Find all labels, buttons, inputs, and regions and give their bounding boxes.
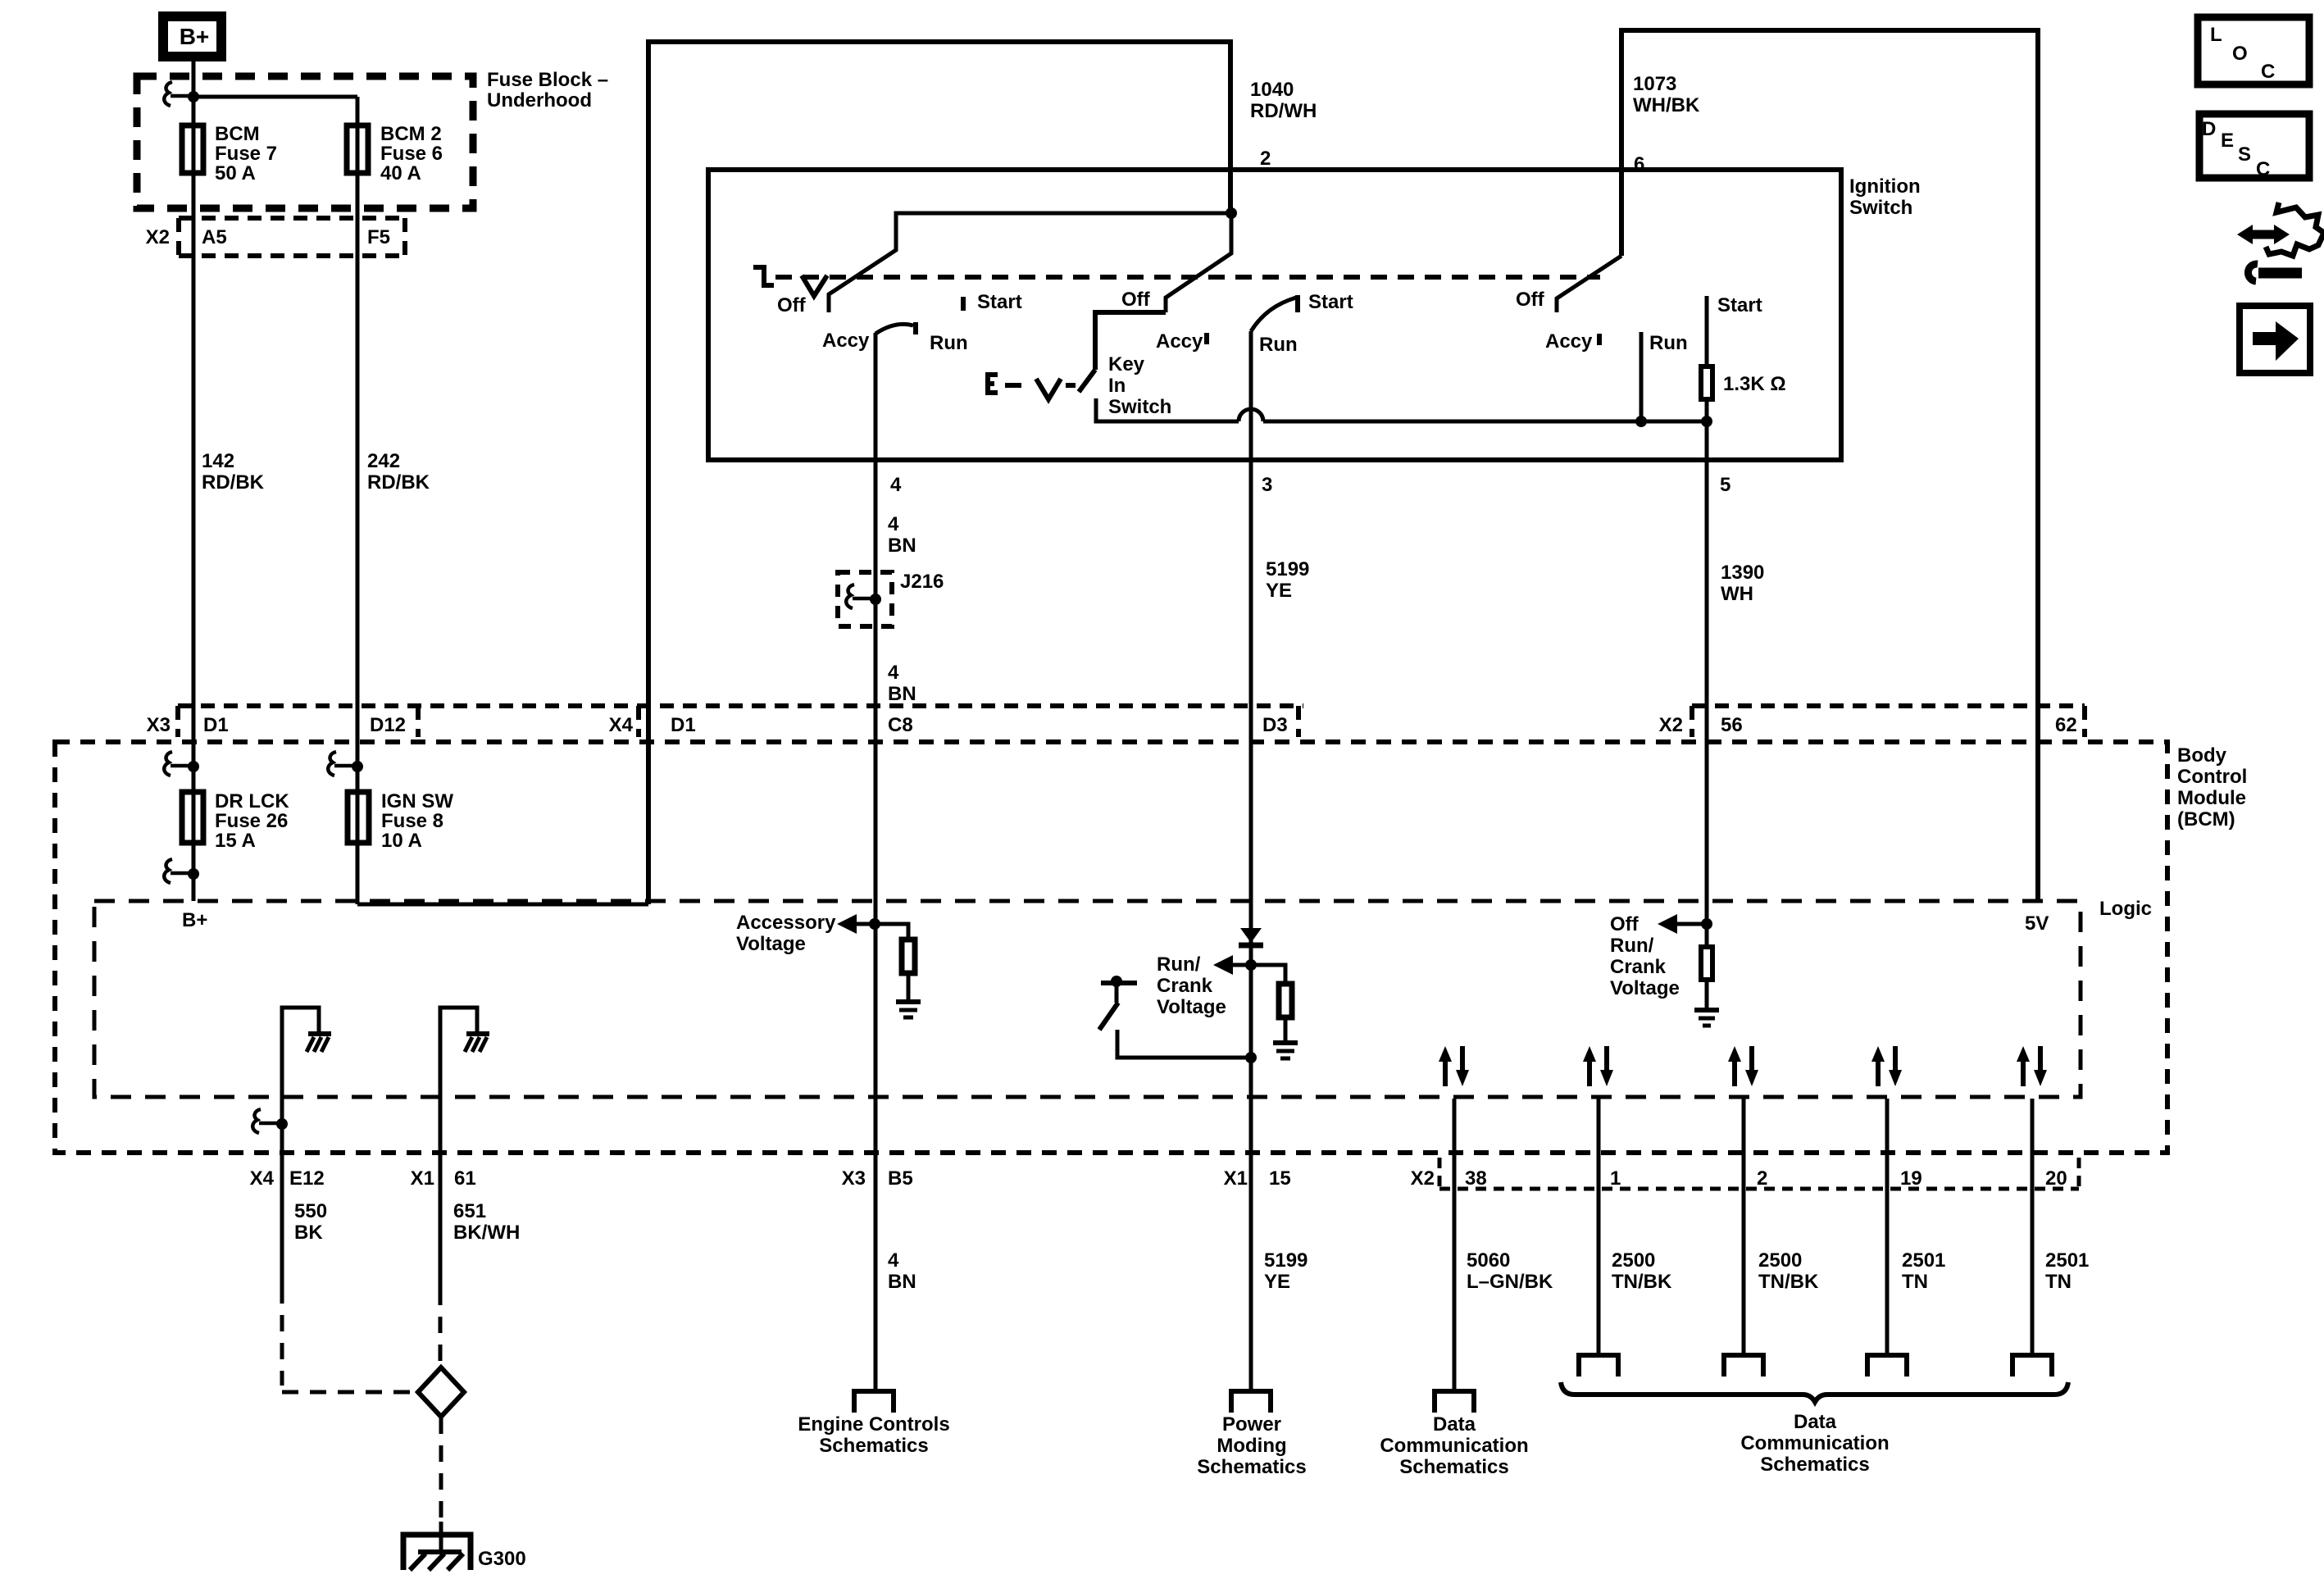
ground G300 <box>439 1522 443 1552</box>
wire 38 <box>1453 1099 1457 1391</box>
dashed wire E12 to splice <box>280 1287 284 1386</box>
svg-text:20: 20 <box>2045 1167 2067 1190</box>
connector row X3 D1 D12 X4 D1 C8 D3 dotted <box>178 706 2085 737</box>
ground branch E12 <box>282 1008 319 1287</box>
clip at B+ feed <box>164 82 172 106</box>
wire B+ to fuse 7 and down to BCM <box>192 61 196 901</box>
node junction at B+ feed <box>188 91 199 102</box>
svg-text:Off: Off <box>1121 289 1151 311</box>
svg-text:Run: Run <box>930 332 968 354</box>
svg-text:651: 651 <box>453 1200 486 1222</box>
svg-text:Key: Key <box>1108 353 1145 375</box>
svg-text:4: 4 <box>888 513 899 535</box>
svg-text:Data: Data <box>1794 1411 1837 1433</box>
svg-text:WH: WH <box>1721 583 1753 605</box>
svg-text:4: 4 <box>890 474 902 496</box>
clip at D1 pin <box>188 761 199 772</box>
wire label 142 RD/BK <box>202 450 430 494</box>
svg-text:Moding: Moding <box>1217 1435 1286 1457</box>
svg-text:2501: 2501 <box>1902 1249 1945 1272</box>
ground run/crank <box>1273 1040 1298 1045</box>
svg-text:D12: D12 <box>370 714 406 736</box>
icon LOC box <box>2198 17 2309 84</box>
svg-text:Run: Run <box>1649 332 1688 354</box>
svg-text:A5: A5 <box>202 226 227 248</box>
svg-text:RD/BK: RD/BK <box>202 471 265 494</box>
label Fuse Block Underhood <box>487 69 608 111</box>
svg-text:X1: X1 <box>411 1167 434 1190</box>
wire resistor to junction <box>1705 402 1709 421</box>
svg-text:G300: G300 <box>478 1548 526 1570</box>
svg-text:10 A: 10 A <box>381 830 422 852</box>
svg-text:2501: 2501 <box>2045 1249 2089 1272</box>
wire 1073 WH/BK top run <box>1621 30 2038 901</box>
connector bracket 38 <box>1435 1391 1474 1413</box>
svg-text:IGN SW: IGN SW <box>381 790 453 812</box>
svg-text:DR LCK: DR LCK <box>215 790 289 812</box>
E terminal key-in <box>988 375 998 393</box>
svg-text:Voltage: Voltage <box>736 933 806 955</box>
svg-text:TN/BK: TN/BK <box>1758 1271 1819 1293</box>
wire fuse 6 drop <box>356 97 360 904</box>
svg-text:BN: BN <box>888 535 916 557</box>
accessory voltage arrow <box>736 912 836 955</box>
wire resistor to ground <box>1284 1020 1288 1043</box>
svg-text:X2: X2 <box>146 226 170 248</box>
internal run/crank switch <box>1101 981 1137 985</box>
connector bracket 20 <box>2012 1355 2052 1377</box>
svg-text:Accy: Accy <box>822 330 870 352</box>
svg-text:62: 62 <box>2055 714 2077 736</box>
svg-text:15 A: 15 A <box>215 830 256 852</box>
data link arrows 20 <box>2017 1046 2047 1086</box>
svg-text:X1: X1 <box>1224 1167 1248 1190</box>
data link arrows 38 <box>1439 1046 1469 1086</box>
svg-text:Fuse 26: Fuse 26 <box>215 810 288 832</box>
svg-text:19: 19 <box>1900 1167 1922 1190</box>
svg-text:Voltage: Voltage <box>1610 977 1680 999</box>
wire 4 from Accy contact down <box>874 333 878 1391</box>
svg-text:TN: TN <box>2045 1271 2072 1293</box>
svg-text:Run: Run <box>1259 334 1298 356</box>
start contact curve sw B <box>1251 298 1296 331</box>
contact tick Start A <box>961 297 966 311</box>
bottom wire labels <box>294 1200 2089 1293</box>
wire big loop fuse8 to ignition pin 2 <box>648 42 1230 904</box>
svg-text:Off: Off <box>1610 913 1640 935</box>
svg-text:61: 61 <box>454 1167 476 1190</box>
svg-text:Crank: Crank <box>1610 956 1667 978</box>
ground off/run/crank <box>1694 1008 1719 1012</box>
svg-text:In: In <box>1108 375 1126 397</box>
svg-text:BK/WH: BK/WH <box>453 1222 520 1244</box>
resistor run/crank pull-down <box>1279 984 1292 1017</box>
node start junction <box>1701 416 1712 427</box>
key-in switch blade <box>1079 370 1095 392</box>
svg-text:1.3K Ω: 1.3K Ω <box>1723 373 1786 395</box>
svg-text:B+: B+ <box>180 24 210 49</box>
svg-text:Module: Module <box>2177 787 2246 809</box>
switch blade C from pin 6 <box>1557 256 1621 312</box>
svg-text:YE: YE <box>1266 580 1292 602</box>
data link arrows 1 <box>1583 1046 1613 1086</box>
svg-text:Schematics: Schematics <box>1197 1456 1306 1478</box>
wire 1 <box>1597 1099 1601 1355</box>
svg-text:(BCM): (BCM) <box>2177 808 2235 830</box>
svg-text:Fuse 7: Fuse 7 <box>215 143 277 165</box>
resistor accessory pull-down <box>902 940 915 973</box>
svg-text:5V: 5V <box>2025 912 2049 935</box>
chassis ground 61 <box>466 1031 489 1036</box>
connector bracket 1 <box>1579 1355 1618 1377</box>
connector bracket 2 <box>1724 1355 1763 1377</box>
svg-text:Off: Off <box>777 294 807 316</box>
svg-text:BN: BN <box>888 1271 916 1293</box>
svg-text:L: L <box>2210 24 2222 46</box>
svg-text:S: S <box>2238 143 2251 166</box>
svg-text:F5: F5 <box>367 226 390 248</box>
fuse BCM Fuse 7 50A <box>182 125 203 173</box>
svg-text:Communication: Communication <box>1380 1435 1528 1457</box>
wire hop over wire 3 <box>1239 409 1263 421</box>
svg-text:142: 142 <box>202 450 234 472</box>
node run/crank junction <box>1245 959 1257 971</box>
svg-text:Logic: Logic <box>2099 898 2152 920</box>
svg-text:BCM: BCM <box>215 123 260 145</box>
svg-text:2: 2 <box>1757 1167 1767 1190</box>
svg-text:50 A: 50 A <box>215 162 256 184</box>
svg-text:Control: Control <box>2177 766 2247 788</box>
logic dashed box <box>94 901 2081 1097</box>
svg-text:Fuse Block –: Fuse Block – <box>487 69 608 91</box>
svg-text:Switch: Switch <box>1849 197 1912 219</box>
svg-text:Voltage: Voltage <box>1157 996 1226 1018</box>
svg-text:E12: E12 <box>289 1167 325 1190</box>
svg-text:B5: B5 <box>888 1167 913 1190</box>
svg-text:RD/BK: RD/BK <box>367 471 430 494</box>
svg-text:1: 1 <box>1610 1167 1621 1190</box>
svg-text:Run/: Run/ <box>1157 953 1201 976</box>
fuse BCM 2 Fuse 6 40A <box>347 125 368 173</box>
switch blade A to pin2 wire <box>829 213 1231 312</box>
connector bracket B5 <box>854 1391 894 1413</box>
svg-text:D: D <box>2202 118 2216 140</box>
svg-text:Accy: Accy <box>1156 330 1203 353</box>
wire jumper to fuse 6 <box>193 95 357 99</box>
svg-text:2500: 2500 <box>1612 1249 1655 1272</box>
svg-text:40 A: 40 A <box>380 162 421 184</box>
svg-text:5060: 5060 <box>1467 1249 1510 1272</box>
off/run/crank voltage arrow <box>1610 913 1680 999</box>
svg-text:Schematics: Schematics <box>1760 1454 1869 1476</box>
dashed wire diamond to G300 <box>439 1417 443 1522</box>
svg-text:X4: X4 <box>609 714 634 736</box>
svg-text:Accy: Accy <box>1545 330 1593 353</box>
wire Start contact sw C <box>1705 296 1709 364</box>
svg-text:Underhood: Underhood <box>487 89 592 111</box>
svg-text:BN: BN <box>888 683 916 705</box>
contact V sw A <box>802 275 827 296</box>
svg-text:Engine Controls: Engine Controls <box>798 1413 949 1436</box>
svg-text:C: C <box>2256 158 2270 180</box>
node accessory junction <box>869 918 880 930</box>
svg-text:TN/BK: TN/BK <box>1612 1271 1672 1293</box>
svg-text:2: 2 <box>1260 148 1271 170</box>
dashed wire 61 to splice <box>439 1289 443 1361</box>
svg-text:BK: BK <box>294 1222 323 1244</box>
clip J216 <box>846 585 854 608</box>
svg-text:Start: Start <box>977 291 1022 313</box>
svg-text:Power: Power <box>1222 1413 1281 1436</box>
svg-text:Communication: Communication <box>1740 1432 1889 1454</box>
terminal hook sw A <box>753 267 774 285</box>
chassis ground E12 <box>308 1031 331 1036</box>
wire 3 5199 down from Run contact <box>1249 331 1253 1391</box>
icon arrow box <box>2240 306 2310 373</box>
svg-text:BCM 2: BCM 2 <box>380 123 442 145</box>
connector row X2 A5 F5 dotted box <box>179 218 405 256</box>
svg-text:X2: X2 <box>1659 714 1683 736</box>
svg-text:4: 4 <box>888 662 899 684</box>
wire 5 1390 down <box>1705 421 1709 944</box>
brace data communication <box>1561 1382 2068 1402</box>
svg-text:Switch: Switch <box>1108 396 1171 418</box>
icon wrench <box>2248 264 2258 281</box>
svg-text:Fuse 6: Fuse 6 <box>380 143 443 165</box>
node switch to wire3 <box>1245 1052 1257 1063</box>
svg-text:L–GN/BK: L–GN/BK <box>1467 1271 1553 1293</box>
switch blade B to pin2 <box>1166 213 1231 312</box>
node pin2 junction <box>1226 207 1237 219</box>
svg-text:RD/WH: RD/WH <box>1250 100 1317 122</box>
key-in lower contact and wire <box>1096 398 1239 421</box>
svg-text:X2: X2 <box>1411 1167 1435 1190</box>
svg-text:2500: 2500 <box>1758 1249 1802 1272</box>
svg-text:Data: Data <box>1433 1413 1476 1436</box>
connector bracket 19 <box>1867 1355 1907 1377</box>
svg-text:Body: Body <box>2177 744 2227 767</box>
B+ power symbol <box>163 16 221 57</box>
svg-text:4: 4 <box>888 1249 899 1272</box>
svg-text:56: 56 <box>1721 714 1743 736</box>
svg-text:Schematics: Schematics <box>1399 1456 1508 1478</box>
svg-text:X3: X3 <box>842 1167 866 1190</box>
svg-text:5: 5 <box>1720 474 1730 496</box>
svg-text:38: 38 <box>1465 1167 1487 1190</box>
svg-text:E: E <box>2221 130 2234 152</box>
svg-text:15: 15 <box>1269 1167 1291 1190</box>
resistor off/run/crank <box>1701 947 1712 980</box>
wire 2 <box>1742 1099 1746 1355</box>
svg-text:Accessory: Accessory <box>736 912 836 934</box>
fuse block underhood dashed box <box>137 76 473 208</box>
svg-text:D3: D3 <box>1262 714 1288 736</box>
ground accessory <box>896 999 921 1004</box>
icon harness routing <box>2266 202 2324 256</box>
clip at E12 pin <box>276 1118 288 1130</box>
svg-text:TN: TN <box>1902 1271 1928 1293</box>
svg-text:D1: D1 <box>203 714 229 736</box>
contact arc Accy-Run A <box>875 324 913 334</box>
svg-text:B+: B+ <box>182 909 207 931</box>
connector bracket 15 <box>1231 1391 1271 1413</box>
icon DESC box <box>2199 114 2309 178</box>
data link arrows 2 <box>1728 1046 1758 1086</box>
svg-text:J216: J216 <box>900 571 944 593</box>
wire resistor to ground <box>1705 982 1709 1010</box>
svg-text:Ignition: Ignition <box>1849 175 1921 198</box>
svg-text:YE: YE <box>1264 1271 1290 1293</box>
wire Run contact sw C <box>1640 332 1644 421</box>
svg-text:Off: Off <box>1516 289 1545 311</box>
connector row bottom dotted <box>1439 1158 2079 1189</box>
BCM dashed box <box>55 742 2167 1153</box>
ignition switch box <box>708 170 1841 460</box>
svg-text:5199: 5199 <box>1266 558 1309 580</box>
svg-text:Start: Start <box>1308 291 1353 313</box>
diode on wire 3 <box>1240 928 1262 943</box>
wire to resistor junction <box>1263 420 1707 424</box>
svg-text:C: C <box>2261 61 2275 83</box>
svg-text:1040: 1040 <box>1250 79 1294 101</box>
splice J216 dashed box <box>838 572 892 626</box>
wire 19 <box>1885 1099 1890 1355</box>
svg-text:1390: 1390 <box>1721 562 1764 584</box>
key-in linkage dashed line <box>1005 383 1021 388</box>
node J216 <box>870 594 881 605</box>
wire to accessory resistor <box>875 924 908 937</box>
wire resistor to ground <box>907 976 911 1002</box>
fuse DR LCK Fuse 26 15A <box>182 792 203 843</box>
fuse IGN SW Fuse 8 10A <box>348 792 369 843</box>
ground branch 61 <box>440 1008 477 1289</box>
run/crank voltage arrow <box>1157 953 1226 1018</box>
destination labels <box>798 1411 1889 1478</box>
wire to run/crank resistor <box>1251 965 1285 981</box>
mechanical linkage dashed line <box>775 275 1600 280</box>
wire fuse8 bottom jog <box>357 903 648 907</box>
clip at D12 pin <box>352 761 363 772</box>
data link arrows 19 <box>1871 1046 1902 1086</box>
node off/run/crank junction <box>1701 918 1712 930</box>
step link sw B <box>1095 312 1166 370</box>
svg-text:D1: D1 <box>671 714 696 736</box>
svg-text:O: O <box>2232 43 2248 65</box>
clip below DR LCK fuse <box>188 868 199 880</box>
svg-text:3: 3 <box>1262 474 1272 496</box>
resistor 1.3K <box>1701 366 1712 399</box>
svg-text:1073: 1073 <box>1633 73 1676 95</box>
wire label 1040 RD/WH <box>1250 79 1317 170</box>
splice diamond <box>418 1367 464 1417</box>
svg-text:5199: 5199 <box>1264 1249 1308 1272</box>
svg-text:X3: X3 <box>147 714 171 736</box>
wire 20 <box>2031 1099 2035 1355</box>
svg-text:Run/: Run/ <box>1610 935 1654 957</box>
svg-text:Fuse 8: Fuse 8 <box>381 810 443 832</box>
svg-text:C8: C8 <box>888 714 913 736</box>
node run junction <box>1635 416 1647 427</box>
svg-text:Start: Start <box>1717 294 1762 316</box>
svg-text:Schematics: Schematics <box>819 1435 928 1457</box>
contact V key-in <box>1036 379 1061 399</box>
svg-text:242: 242 <box>367 450 400 472</box>
svg-text:550: 550 <box>294 1200 327 1222</box>
svg-text:X4: X4 <box>250 1167 275 1190</box>
svg-text:WH/BK: WH/BK <box>1633 94 1700 116</box>
svg-text:Crank: Crank <box>1157 975 1213 997</box>
